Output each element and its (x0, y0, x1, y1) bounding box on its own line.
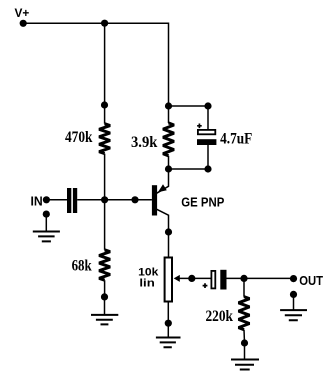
node junction 220k top (240, 275, 247, 282)
transistor Q1 collector diagonal (157, 209, 169, 256)
wire 4.7uF bottom lead (207, 145, 209, 169)
wire right vertical from top rail down to 3.9k junction (168, 23, 170, 107)
wire 4.7uF top lead (207, 106, 209, 129)
capacitor C2 4.7uF plus sign (197, 124, 202, 129)
node 68k ground dot (101, 293, 108, 300)
node dot on wiper wire (188, 275, 195, 282)
wire 68k ground stem (104, 297, 106, 315)
wire emitter vertical + diagonal (157, 169, 169, 193)
wire junction to cap top (169, 105, 209, 107)
transistor Q1 base bar (152, 185, 157, 215)
transistor Q1 emitter arrow (158, 184, 167, 192)
node junction top of 470k branch (101, 20, 108, 27)
node dot on collector lead (165, 228, 172, 235)
node dot on base wire (131, 196, 138, 203)
capacitor C2 4.7uF top plate (198, 130, 215, 134)
node junction base bias (101, 196, 108, 203)
wire IN to input cap (46, 199, 67, 201)
wire IN ground stem (45, 214, 47, 231)
wire OUT ground stem (293, 294, 295, 310)
svg-text:68k: 68k (72, 258, 92, 275)
potentiometer VR1 body (165, 258, 172, 302)
capacitor C2 4.7uF bottom plate (197, 139, 216, 145)
svg-text:GE PNP: GE PNP (181, 196, 224, 210)
svg-text:OUT: OUT (299, 273, 323, 288)
wire 3.9k bottom lead (168, 156, 170, 169)
node IN terminal (43, 196, 50, 203)
node junction 3.9k top (165, 102, 172, 109)
ground 220k (231, 360, 259, 370)
wire 470k bottom to input junction (104, 154, 106, 200)
wire 68k bottom lead (104, 280, 106, 297)
resistor R3 68k (99, 250, 110, 280)
node pot ground dot (165, 320, 172, 327)
capacitor C3 output left plate (211, 271, 215, 289)
ground pot (156, 338, 181, 348)
node dot on 470k top lead (101, 101, 108, 108)
wire pot ground stem (167, 323, 169, 337)
wire output cap to OUT (227, 277, 294, 279)
capacitor C3 output plus sign (203, 283, 208, 288)
wire 3.9k top lead (168, 106, 170, 123)
wire emitter rail (169, 168, 209, 170)
wire 220k top lead (243, 278, 245, 296)
svg-text:470k: 470k (65, 129, 93, 146)
node junction emitter rail left (165, 165, 172, 172)
ground IN (33, 232, 60, 242)
capacitor C1 input left plate (67, 188, 71, 213)
wire input cap to base (77, 199, 152, 201)
resistor R2 3.9k (163, 123, 174, 156)
wire 220k ground stem (244, 343, 246, 360)
wire 68k top lead (104, 200, 106, 250)
capacitor C3 output right plate (220, 270, 226, 290)
node V+ terminal (20, 20, 27, 27)
ground OUT (280, 310, 307, 320)
node IN ground dot (43, 211, 50, 218)
potentiometer VR1 wiper arrow (174, 275, 180, 282)
resistor R4 220k (239, 297, 250, 330)
resistor R1 470k (99, 124, 110, 154)
wire V+ rail down to 470k top (104, 23, 106, 124)
capacitor C1 input right plate (73, 188, 77, 213)
svg-text:lin: lin (139, 278, 155, 290)
svg-text:V+: V+ (15, 6, 30, 20)
svg-text:3.9k: 3.9k (131, 134, 157, 151)
svg-text:4.7uF: 4.7uF (220, 131, 252, 148)
svg-text:IN: IN (31, 194, 43, 208)
node OUT ground dot (290, 291, 297, 298)
wire 220k bottom lead (243, 330, 246, 343)
wire pot bottom lead (167, 302, 169, 323)
node junction 4.7uF bottom (204, 165, 211, 172)
node 220k ground dot (241, 339, 248, 346)
svg-text:220k: 220k (206, 308, 234, 325)
wire wiper to output cap (179, 277, 211, 279)
ground 68k (91, 315, 118, 325)
node junction 4.7uF top (204, 102, 211, 109)
wire top rail from V+ to right corner (23, 22, 168, 24)
node OUT terminal (290, 275, 297, 282)
